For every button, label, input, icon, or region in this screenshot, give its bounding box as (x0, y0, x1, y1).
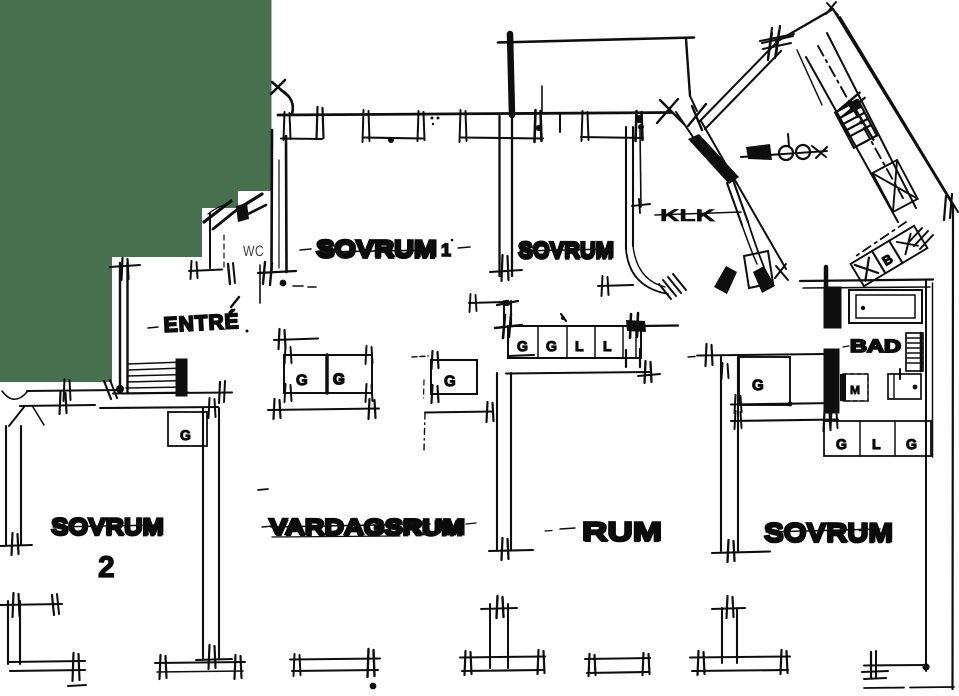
entry door X tick (272, 82, 287, 95)
hall wall vertical double (625, 127, 627, 249)
ticks at closet corners (285, 346, 286, 364)
wall top exterior main line (278, 113, 672, 116)
svg-text:SOVRUM: SOVRUM (52, 515, 163, 541)
svg-text:G: G (752, 377, 764, 394)
window 2 ticks (460, 110, 461, 142)
bottom wall segment B (155, 662, 245, 663)
tick at lower top (727, 596, 728, 618)
wall right inner line (925, 281, 927, 671)
bathtub inner (856, 295, 915, 318)
stairs left blob (116, 385, 124, 393)
svg-text:L: L (603, 338, 612, 354)
kitchen band dash-dot centre line (818, 46, 903, 198)
tick at closet row left (824, 411, 825, 431)
fixture box right (888, 374, 921, 399)
svg-text:SOVRUM: SOVRUM (519, 239, 613, 264)
tick at left wall (12, 533, 13, 555)
svg-text:G: G (333, 371, 345, 388)
wall left interior below green corner (270, 130, 273, 270)
window 1 ticks (363, 110, 364, 142)
wall stub above segment D (489, 604, 491, 668)
wall left exterior upper segment (5, 426, 7, 545)
bathroom left wall thick upper (824, 287, 841, 328)
wall right exterior outer (951, 205, 954, 689)
bottom wall segment C (290, 659, 380, 660)
wc bottom line (189, 270, 222, 272)
svg-text:G: G (444, 373, 456, 390)
tick bottom of left interior wall (263, 262, 265, 284)
left mid window line (0, 604, 62, 605)
klk inner wall line (640, 130, 641, 207)
bay left wall thick (510, 34, 512, 115)
ticks at single closet (432, 351, 433, 369)
bottom wall segment A left (8, 661, 85, 662)
line below single closet (425, 412, 493, 413)
svg-text:BAD: BAD (850, 336, 901, 356)
svg-text:G: G (180, 427, 191, 443)
closet G box (entre) (168, 412, 207, 446)
hall bottom wall line (697, 354, 824, 356)
wall between vardagsrum and rum upper (496, 373, 498, 550)
wall lower segment (721, 608, 723, 663)
corner X top-right of wall (660, 100, 684, 124)
single closet G box (431, 360, 477, 394)
wc dashed jamb (223, 235, 225, 270)
walls below bathroom double lines (731, 403, 836, 405)
tick on hall bottom wall (706, 344, 707, 366)
kitchen band stove rungs (832, 92, 884, 150)
closet row G L G bottom right (824, 421, 931, 456)
svg-text:ENTRÉ: ENTRÉ (163, 310, 240, 337)
wc left wall (209, 213, 211, 268)
svg-text:2: 2 (98, 551, 115, 584)
window 3 ticks (582, 111, 583, 141)
line left of wall stub (469, 302, 504, 303)
radiator ladder right (906, 333, 923, 371)
door jamb blob left (714, 266, 737, 294)
wall diagonal upper (to kitchen band) (699, 44, 775, 122)
svg-text:1: 1 (441, 240, 451, 260)
bathroom left wall thick lower (824, 349, 839, 413)
entry door swing arc (281, 90, 293, 114)
hall door hatch at curve end (663, 280, 676, 296)
corridor wall below closets (506, 372, 651, 374)
kitchen band right outer line (833, 9, 954, 207)
svg-text:G: G (546, 338, 557, 354)
svg-text:M: M (850, 383, 860, 397)
bathroom top wall (800, 280, 933, 282)
chamfer corner tick (944, 196, 946, 220)
door leaf line below wc (259, 265, 261, 303)
green redaction block top-left (0, 0, 272, 382)
corridor wall lower line (100, 407, 218, 408)
tick top of entre wall (122, 258, 123, 280)
corridor upper-left wall thin part (676, 112, 693, 137)
closet divider thick (325, 355, 329, 393)
closet dividers (537, 326, 539, 358)
svg-text:L: L (872, 436, 881, 452)
svg-text:L: L (575, 338, 584, 354)
corridor wall upper line (under stairs) (113, 393, 232, 394)
corridor upper-left wall lower double (733, 180, 748, 222)
tick top-right of closet row blob (626, 320, 646, 332)
wall between top bedrooms (498, 116, 500, 276)
kitchen band left line (806, 57, 898, 222)
svg-text:G: G (836, 436, 847, 452)
tick bottom of that wall (209, 645, 210, 669)
washing machine dashed box M (843, 374, 868, 401)
kitchen band outer second line (840, 17, 958, 212)
tick top-left of closet row heavy (503, 315, 505, 338)
klk strikethrough (655, 212, 741, 215)
kitchen band bend segment boxes (851, 226, 928, 286)
window tick left wall start (284, 112, 285, 140)
wall left exterior lower segment (7, 601, 9, 664)
stairs treads (128, 362, 184, 364)
wall between rum and sovrum upper (720, 357, 722, 551)
tick on rum wall top (722, 363, 723, 379)
left edge small arc (2, 391, 27, 399)
svg-text:SOVRUM: SOVRUM (765, 519, 892, 549)
tick at corridor lower line (209, 398, 210, 418)
closet G box right of hall (739, 357, 790, 405)
hall curved wall inner (633, 246, 665, 287)
tick + door line at y552 (728, 540, 729, 562)
tick mid stub (504, 300, 510, 306)
door jamb blob right (753, 266, 775, 293)
wall stub above closet row (503, 301, 505, 326)
kitchen band hatch strokes at bend (908, 228, 922, 243)
closet bottom edge ticks (625, 350, 627, 367)
kitchen band inner right line (827, 33, 916, 208)
bay top line (498, 38, 694, 43)
wall top lower segments (window sills) (281, 137, 322, 140)
closet row GGLL outer (508, 326, 641, 358)
closet G|G double box (284, 355, 372, 393)
window tick x318 (317, 107, 318, 139)
kitchen band second left line (797, 50, 822, 105)
window symbol with circles (kok) (741, 151, 827, 157)
closet right double wall (635, 326, 637, 358)
svg-text:G: G (517, 338, 528, 354)
corridor right edge line (701, 121, 786, 269)
wall left of entre (119, 263, 121, 392)
bottom wall segment G right corner (864, 664, 927, 667)
bottom wall segment D (460, 657, 545, 658)
left corner diagonals (20, 405, 95, 406)
tick right end (645, 361, 646, 383)
tick on corridor wall (219, 382, 220, 403)
tick bottom of bedroom wall (502, 255, 503, 281)
junction blob and dashes right (280, 280, 287, 287)
stub line right of wall top (508, 355, 534, 356)
closet top line extension right (641, 324, 678, 327)
tick + door line at y550 (502, 538, 503, 560)
dot above closets (561, 316, 565, 320)
svg-text:WC: WC (243, 243, 264, 260)
line above double closet (274, 339, 318, 341)
wc door swing strokes (204, 201, 231, 222)
svg-text:KLK: KLK (660, 206, 716, 225)
dash-dot door marker (424, 413, 425, 450)
svg-text:G: G (296, 372, 308, 389)
svg-text:RUM: RUM (583, 518, 661, 548)
small stroke between windows (559, 114, 561, 132)
tick cluster at diagonal lower end (692, 106, 702, 130)
wall between sovrum2 and vardagsrum (202, 408, 204, 659)
kitchen band cap line top-left (776, 9, 833, 42)
stairs heavy bar (176, 359, 187, 396)
bay inner line right (541, 86, 543, 114)
bathtub outer (849, 290, 922, 323)
kitchen band X box (872, 160, 917, 212)
closet dividers (859, 421, 861, 456)
left edge line y390 (27, 390, 120, 391)
kitchen band small tick top corner (827, 3, 838, 15)
line below double closet (268, 409, 379, 411)
tick klk corner (632, 204, 650, 206)
kitchen band tick cluster left end (768, 28, 772, 58)
corridor upper-left wall thick black part (688, 134, 739, 184)
door jamb ticks (776, 266, 788, 280)
stray dash left of vardagsrum (258, 489, 268, 490)
hall curved wall outer (626, 249, 668, 294)
hall short line left (598, 285, 633, 286)
tick cluster at diagonal upper end (768, 33, 772, 60)
door leaf trapezoid (744, 251, 773, 288)
corridor wall curve to door (748, 222, 764, 267)
svg-text:G: G (906, 436, 917, 452)
bay right wall (686, 39, 690, 96)
bottom wall segment F (690, 657, 790, 658)
dashed stub left of single closet (412, 356, 428, 357)
bottom wall segment E (585, 658, 650, 659)
